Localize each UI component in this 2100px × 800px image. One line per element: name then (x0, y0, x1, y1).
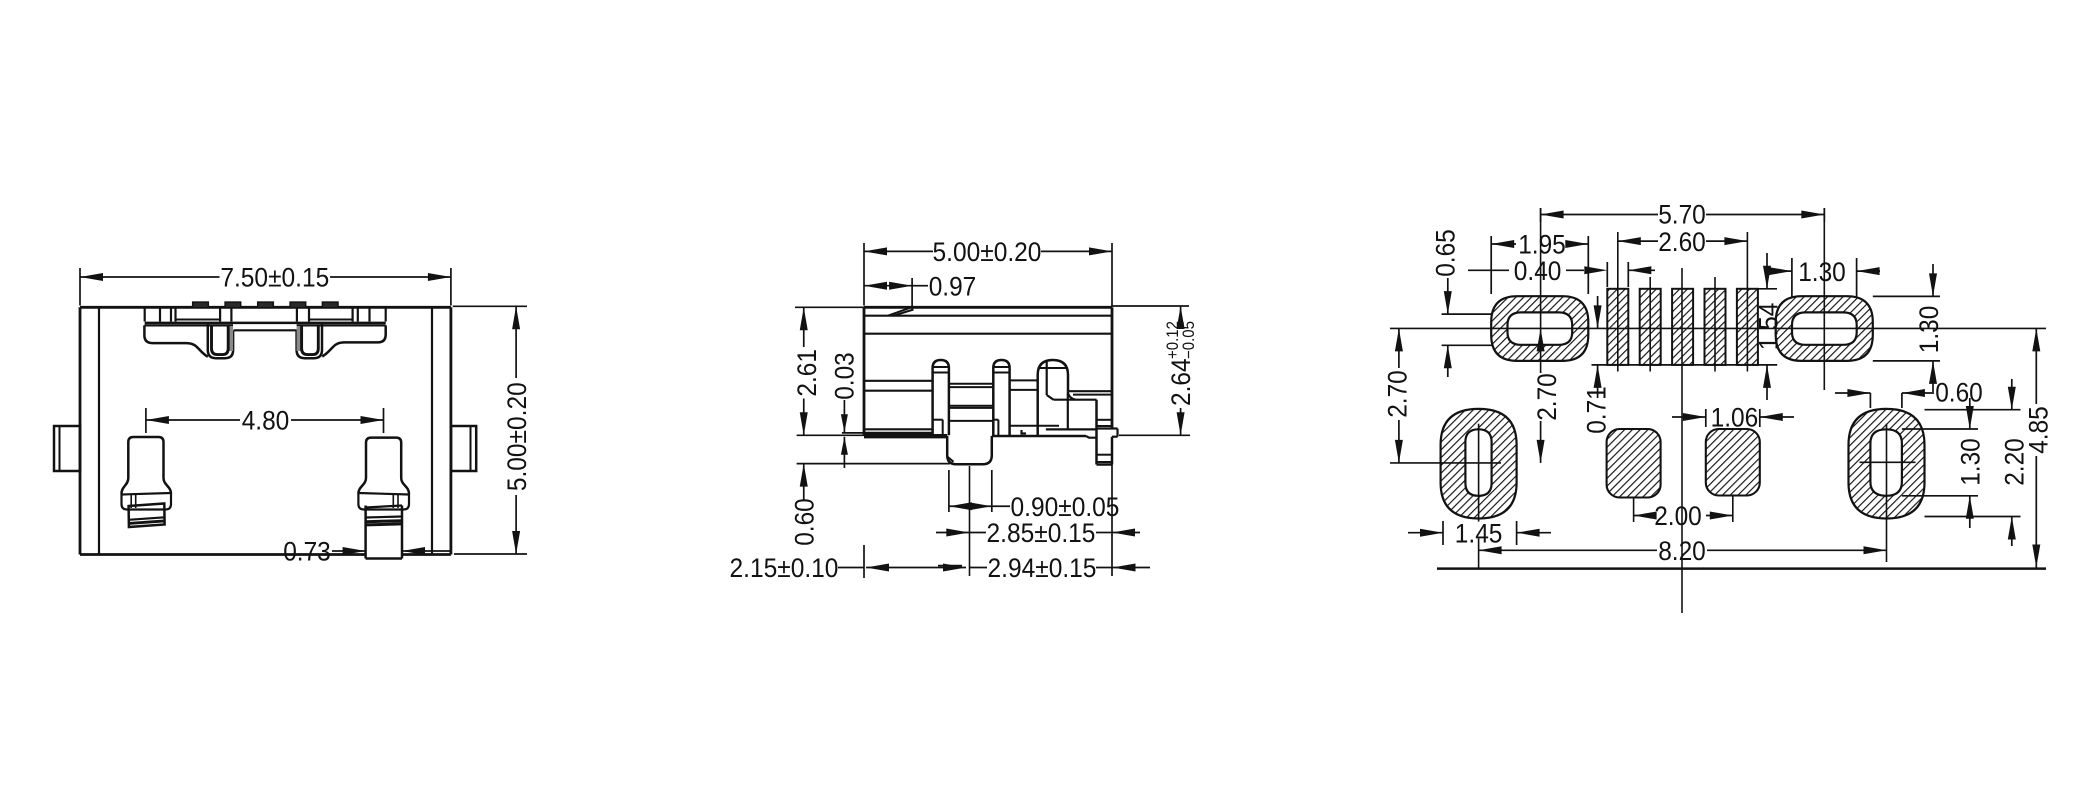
svg-text:1.06: 1.06 (1711, 403, 1759, 433)
svg-text:0.71: 0.71 (1582, 386, 1612, 434)
side view: leg lower part (1095, 429, 1098, 465)
land pattern: dimension 0.65 (1442, 313, 1492, 315)
left view: dimension 4.80 (145, 408, 147, 433)
land pattern: dimension 2.00 (1634, 512, 1657, 520)
side view: dimension 5.00±0.20 (863, 243, 865, 306)
side view: dimension 2.85±0.15 (936, 532, 969, 534)
svg-text:5.00±0.20: 5.00±0.20 (502, 382, 532, 491)
land pattern: top-left oval pad with slot (1491, 296, 1588, 361)
side view: dimension 0.90±0.05 (948, 470, 950, 512)
side view: contact post 2 (993, 360, 1009, 436)
land pattern: top-right pad centerline (1823, 208, 1825, 390)
left view: shield band verticals (144, 307, 146, 321)
svg-text:1.45: 1.45 (1455, 518, 1503, 548)
svg-text:2.00: 2.00 (1654, 501, 1702, 531)
left view: side bump right (451, 426, 476, 471)
left view: left wing outline (144, 325, 207, 356)
svg-text:2.70: 2.70 (1532, 373, 1562, 421)
side view: lines between posts 2-3 (1010, 379, 1038, 381)
svg-text:2.61: 2.61 (792, 349, 822, 397)
svg-text:0.73: 0.73 (283, 537, 331, 567)
left view: right post stem (364, 506, 367, 559)
left view: left clip shading (228, 327, 233, 351)
land pattern: dimension 2.70 middle (1540, 371, 1542, 373)
land pattern: dimension 1.30 top (1791, 258, 1793, 297)
side view: shelf (1068, 390, 1112, 392)
left view: side bump left (54, 426, 80, 471)
side view: leg foot plate (1097, 427, 1118, 429)
side view: contact post 1 (933, 360, 949, 435)
side view: left zone inner lines (864, 380, 933, 382)
land pattern: five hatched pin pads (1607, 289, 1628, 365)
land pattern: dimension 1.06 (1705, 409, 1707, 427)
side view: dimension 2.64 +0.12 -0.05 (1111, 305, 1189, 307)
svg-text:0.40: 0.40 (1514, 256, 1562, 286)
left view: left clip outer U (208, 324, 233, 359)
svg-text:−0.05: −0.05 (1180, 321, 1198, 359)
side view: dimension 0.97 (911, 278, 913, 310)
side view: dimension 2.61 (795, 306, 866, 308)
land pattern: dimension 1.30 bottom-right (1902, 428, 1978, 430)
svg-text:5.00±0.20: 5.00±0.20 (933, 237, 1042, 267)
land pattern: dimension 1.30 right of top pad (1873, 295, 1940, 297)
land pattern: dimension 2.20 (1925, 409, 2021, 411)
left view: left clip inner U (212, 325, 229, 354)
land pattern: dimension 4.85 (2035, 328, 2037, 404)
left view: dimension 5.00±0.20 (453, 305, 527, 307)
side view: lines between posts 1-2 (949, 383, 993, 385)
svg-text:2.15±0.10: 2.15±0.10 (730, 553, 839, 583)
land pattern: center lines (1390, 327, 2046, 329)
left view: right wing outline (322, 325, 386, 356)
side view: body outline (864, 306, 1112, 309)
land pattern: top-right oval pad with slot (1776, 296, 1873, 361)
left view: right clip shading (297, 327, 302, 351)
land pattern: pin pad centerlines (1617, 232, 1619, 372)
svg-text:0.97: 0.97 (929, 271, 977, 301)
side view: contact post 3 (large) (1038, 360, 1068, 436)
side view: bottom tab (947, 436, 992, 464)
svg-text:1.30: 1.30 (1798, 257, 1846, 287)
svg-text:2.70: 2.70 (1383, 370, 1413, 418)
land pattern: bottom-left pad centerline (1478, 424, 1480, 522)
side view: right leg (1095, 400, 1098, 429)
side view: top chamfer mark (889, 308, 911, 316)
svg-text:1.30: 1.30 (1956, 438, 1986, 486)
land pattern: bottom-left oval pad with slot (1441, 409, 1517, 519)
land pattern: small pad A (1607, 429, 1661, 498)
svg-text:0.65: 0.65 (1431, 229, 1461, 277)
svg-text:8.20: 8.20 (1658, 536, 1706, 566)
side view: small tick mark (1022, 430, 1027, 434)
svg-text:0.60: 0.60 (789, 498, 819, 546)
land pattern: dimension 2.60 (1618, 237, 1641, 245)
land pattern: bottom-right pad centerline (1886, 424, 1888, 562)
land pattern: dimension 2.70 left (1398, 328, 1400, 368)
land pattern: bottom-right oval pad with slot (1849, 409, 1925, 519)
left view: right clip inner U (302, 325, 319, 354)
svg-text:2.60: 2.60 (1658, 227, 1706, 257)
side view: tab centerline (969, 466, 971, 576)
left view: left post foot (129, 504, 165, 528)
svg-text:0.60: 0.60 (1935, 378, 1983, 408)
land pattern: dimension 0.71 (1597, 296, 1599, 328)
land pattern: dimension 1.54 (1758, 288, 1777, 290)
land pattern: dimension 5.70 (1540, 208, 1542, 222)
left view: five solder pins on top edge (193, 302, 209, 308)
svg-text:1.30: 1.30 (1914, 306, 1944, 354)
left view: shield band horizontals (176, 319, 221, 321)
left view: connector body outline (top view) (80, 306, 451, 309)
svg-text:0.03: 0.03 (829, 352, 859, 400)
svg-text:5.70: 5.70 (1658, 200, 1706, 230)
left view: left contact post (128, 437, 171, 494)
svg-text:1.54: 1.54 (1754, 303, 1784, 351)
left view: inner side-wall lines (98, 307, 100, 554)
land pattern: dimension 1.45 (1442, 521, 1444, 545)
land pattern: dimension 1.95 (1490, 236, 1492, 294)
svg-text:2.64: 2.64 (1166, 358, 1196, 406)
left view: dimension 0.73 (332, 550, 366, 552)
land pattern: dimension 8.20 (1479, 546, 1502, 554)
svg-text:4.85: 4.85 (2024, 406, 2054, 454)
side view: bottom edge right of tab (992, 435, 1086, 438)
side view: dimension 0.60 (803, 464, 805, 500)
left view: right contact post (366, 438, 409, 494)
svg-text:7.50±0.15: 7.50±0.15 (220, 263, 329, 293)
land pattern: small pad B (1706, 429, 1760, 496)
svg-text:4.80: 4.80 (242, 406, 290, 436)
land pattern: dimension 0.60 (1869, 393, 1871, 408)
svg-text:2.85±0.15: 2.85±0.15 (987, 518, 1096, 548)
left view: right clip outer U (297, 324, 322, 359)
svg-text:2.94±0.15: 2.94±0.15 (988, 553, 1097, 583)
land pattern: board edge line (1437, 567, 2046, 570)
left view: dimension 7.50±0.15 (79, 268, 81, 306)
land pattern: dimension 0.40 (1606, 262, 1608, 287)
side view: dimension 0.03 (842, 432, 864, 434)
land pattern: top-left pad centerline (1540, 208, 1542, 371)
